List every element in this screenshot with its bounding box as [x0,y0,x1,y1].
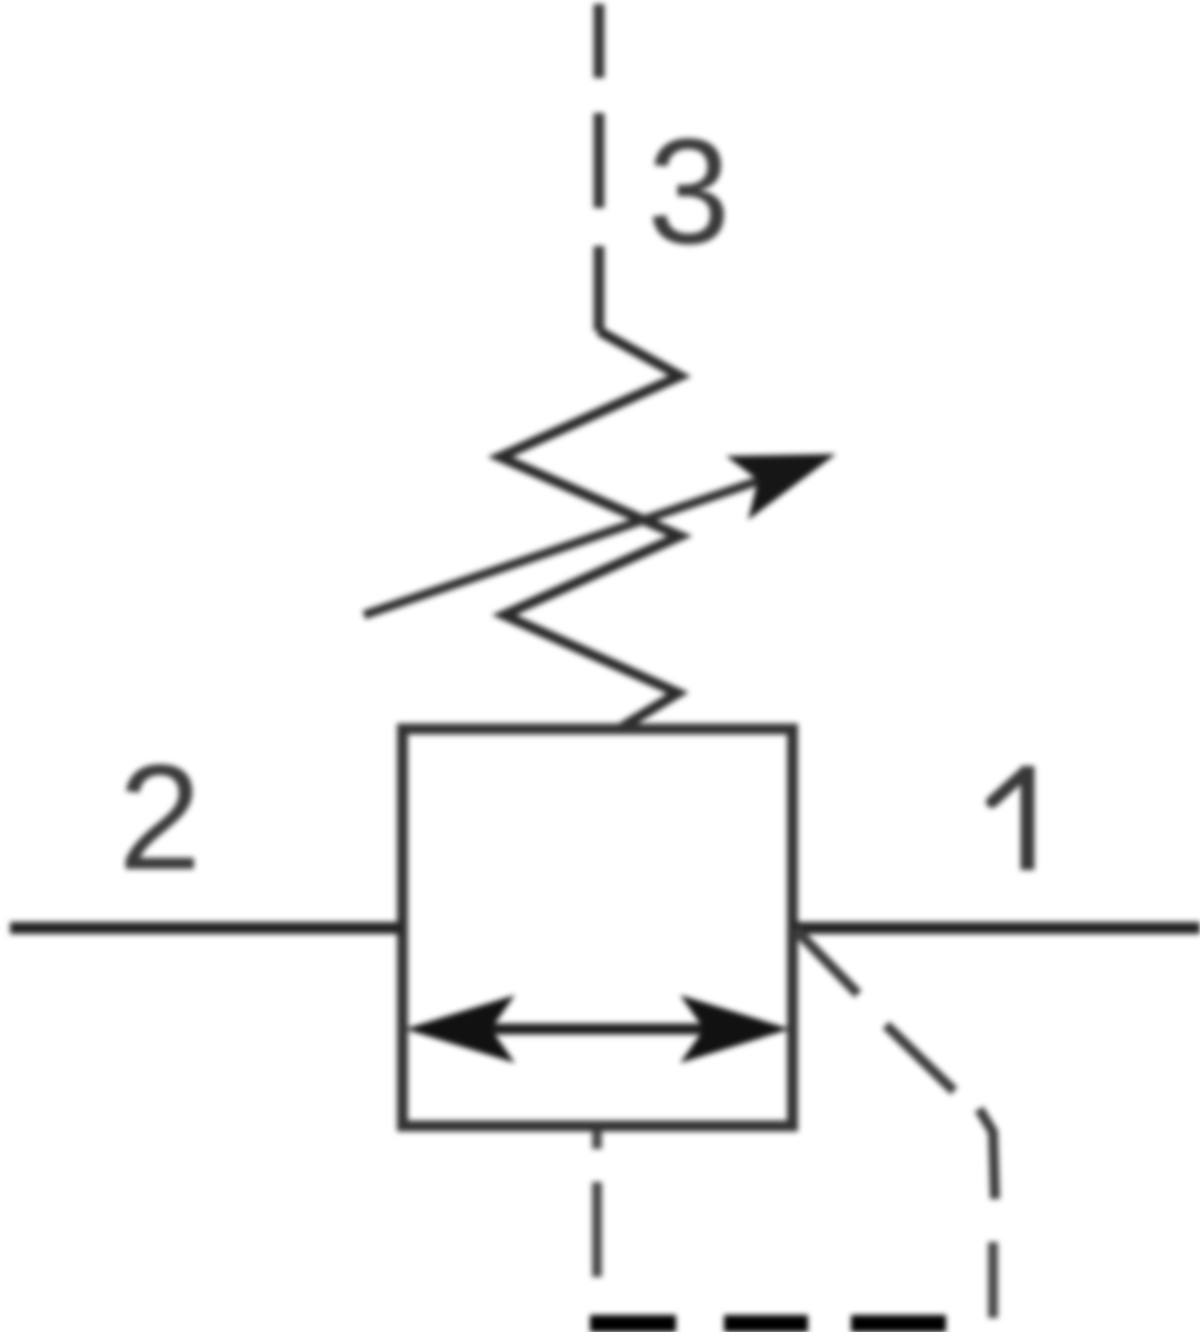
pilot line bottom horizontal (dashed) [590,1315,946,1332]
pilot line right vertical (dashed) [988,1242,998,1318]
port label 1 [992,766,1028,870]
svg-text:3: 3 [647,107,730,275]
port 1 line [793,922,1200,934]
spring [500,331,680,727]
pilot line from port 1 (dashed diagonal) [795,929,995,1199]
flow arrow head right [680,995,790,1063]
adjustment arrow shaft [364,481,758,615]
flow arrow head left [405,995,515,1063]
port 2 line [10,922,402,934]
adjustment arrow head [726,454,836,520]
flow arrow shaft [430,1024,765,1035]
svg-text:2: 2 [118,733,201,901]
valve body U1 [403,729,793,1126]
drain pilot line below valve (dashed vertical) [592,1131,602,1277]
pilot line port 3 (dashed vertical) [594,4,605,331]
